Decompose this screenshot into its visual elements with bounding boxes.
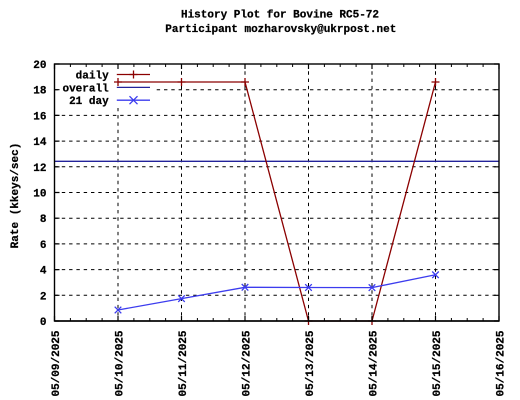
21 day data point x-markers <box>115 272 439 314</box>
plot border box <box>55 64 500 321</box>
svg-text:10: 10 <box>33 189 46 201</box>
svg-text:21 day: 21 day <box>69 96 109 108</box>
svg-text:6: 6 <box>40 240 47 252</box>
horizontal dashed gridlines y=2..18 <box>55 90 500 296</box>
svg-text:Rate (kkeys/sec): Rate (kkeys/sec) <box>10 143 22 249</box>
svg-text:05/10/2025: 05/10/2025 <box>115 330 127 396</box>
svg-text:4: 4 <box>40 266 47 278</box>
major tick marks (y axis, left and right) <box>55 64 500 321</box>
svg-text:05/09/2025: 05/09/2025 <box>51 330 63 396</box>
svg-text:05/14/2025: 05/14/2025 <box>369 330 381 396</box>
svg-text:05/15/2025: 05/15/2025 <box>432 330 444 396</box>
svg-text:History Plot for Bovine RC5-72: History Plot for Bovine RC5-72 <box>181 9 379 21</box>
legend entry: daily (dark red, plus markers) <box>76 70 150 82</box>
svg-text:overall: overall <box>62 83 109 95</box>
vertical dashed gridlines at each date <box>118 64 436 321</box>
bottom axis line (covers daily zero segment) <box>55 320 500 322</box>
svg-text:05/11/2025: 05/11/2025 <box>178 330 190 396</box>
major tick marks (x axis, bottom and top) <box>55 64 500 321</box>
series: overall rate line (navy horizontal ~12.4) <box>55 160 500 162</box>
svg-text:20: 20 <box>33 60 46 72</box>
svg-text:8: 8 <box>40 214 47 226</box>
series: 21 day rate line (blue) <box>118 275 436 310</box>
svg-text:12: 12 <box>33 163 46 175</box>
svg-text:Participant mozharovsky@ukrpos: Participant mozharovsky@ukrpost.net <box>165 24 396 36</box>
legend entry: overall (navy) <box>62 83 150 95</box>
daily data point plus-markers <box>114 78 440 325</box>
svg-text:05/16/2025: 05/16/2025 <box>496 330 508 396</box>
series: daily rate line (dark red) <box>118 82 436 321</box>
svg-text:05/13/2025: 05/13/2025 <box>305 330 317 396</box>
svg-text:daily: daily <box>76 70 109 82</box>
legend opaque background <box>59 67 155 108</box>
minor tick marks (x axis, quarter-day) <box>70 64 483 321</box>
svg-text:0: 0 <box>40 317 47 329</box>
svg-text:18: 18 <box>33 86 47 98</box>
svg-text:14: 14 <box>33 137 47 149</box>
svg-text:16: 16 <box>33 111 46 123</box>
legend entry: 21 day (blue, x markers) <box>69 96 150 108</box>
svg-text:2: 2 <box>40 291 47 303</box>
svg-text:05/12/2025: 05/12/2025 <box>242 330 254 396</box>
